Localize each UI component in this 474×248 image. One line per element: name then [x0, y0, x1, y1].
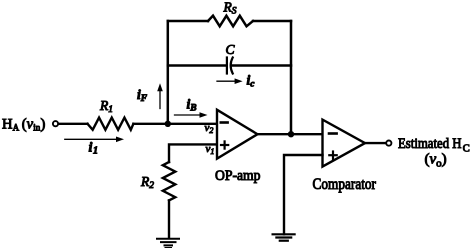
- wire cap branch right: [232, 64, 292, 67]
- ground comparator: [273, 234, 295, 240]
- op-amp U1: [217, 110, 258, 159]
- svg-text:(vo): (vo): [425, 151, 447, 169]
- resistor RS: [208, 16, 253, 27]
- op-amp minus sign: [221, 121, 228, 124]
- wire R2 to ground: [168, 200, 170, 238]
- resistor R2: [163, 162, 176, 200]
- wire cap branch left: [168, 64, 226, 67]
- wire op-amp output: [258, 133, 323, 135]
- node HA input terminal: [53, 121, 58, 126]
- svg-text:Comparator: Comparator: [313, 176, 377, 193]
- wire R1 to node: [133, 123, 167, 125]
- svg-text:A: A: [13, 122, 20, 132]
- node junction input: [165, 121, 171, 127]
- svg-text:iF: iF: [137, 87, 148, 104]
- svg-text:H: H: [2, 116, 13, 132]
- wire op-amp minus input: [168, 123, 217, 125]
- wire top right: [253, 20, 291, 23]
- arrow ic: [217, 78, 243, 84]
- resistor R1: [88, 118, 134, 130]
- node output junction: [288, 131, 294, 137]
- node output terminal: [386, 141, 391, 146]
- svg-text:): ): [41, 116, 46, 132]
- wire input to R1: [59, 123, 88, 125]
- ground R2: [157, 239, 179, 248]
- arrow i1: [65, 137, 124, 143]
- op-amp plus sign: [221, 141, 228, 148]
- wire feedback left vertical: [167, 21, 170, 124]
- svg-text:R2: R2: [140, 174, 154, 191]
- svg-text:ic: ic: [247, 73, 256, 90]
- svg-text:C: C: [463, 143, 470, 154]
- svg-text:RS: RS: [223, 0, 237, 17]
- arrow iB: [175, 112, 208, 118]
- comparator minus sign: [329, 132, 337, 135]
- svg-text:iB: iB: [187, 97, 197, 114]
- comparator U2: [323, 120, 366, 167]
- wire top left: [168, 20, 208, 23]
- svg-text:Estimated H: Estimated H: [398, 136, 462, 152]
- svg-text:(v: (v: [22, 116, 34, 132]
- svg-text:OP-amp: OP-amp: [215, 168, 261, 184]
- svg-text:R1: R1: [99, 98, 113, 115]
- wire comparator output: [365, 142, 386, 144]
- wire op-amp plus input: [169, 144, 217, 162]
- svg-text:i1: i1: [89, 141, 98, 157]
- wire comparator plus input: [284, 155, 323, 234]
- capacitor C: [227, 58, 233, 74]
- arrow iF: [157, 83, 163, 108]
- wire feedback right vertical: [290, 21, 293, 134]
- comparator plus sign: [329, 152, 336, 159]
- svg-text:C: C: [226, 42, 236, 57]
